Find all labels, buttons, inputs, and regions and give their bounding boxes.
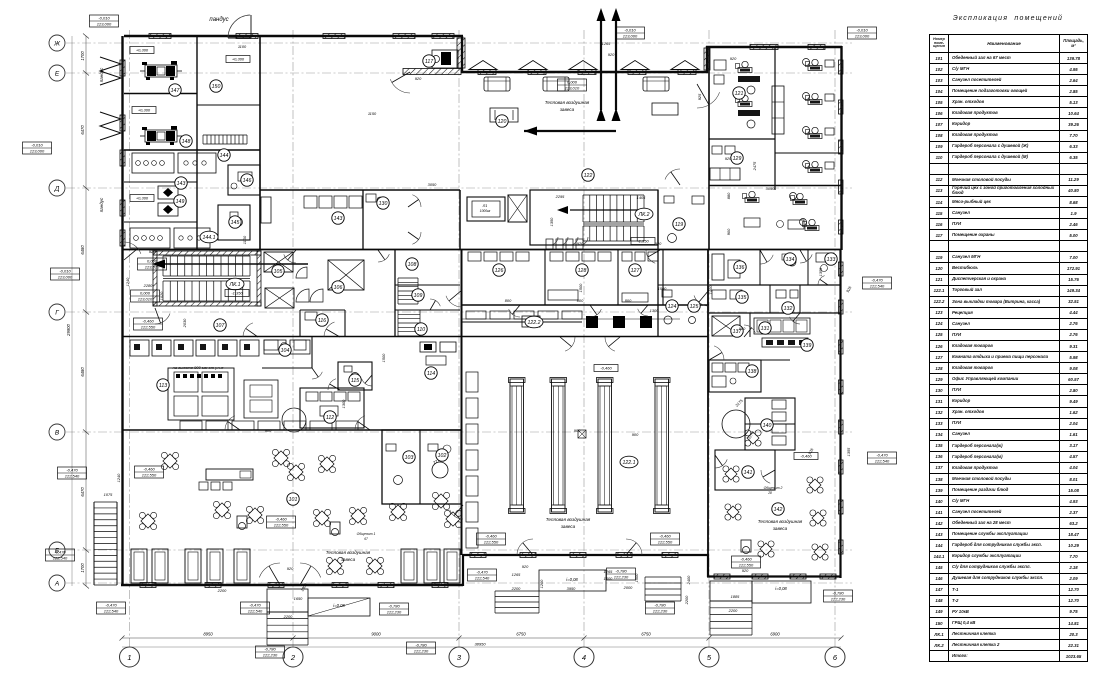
door arc 7 [446, 296, 462, 307]
wall row B y430 [122, 429, 462, 431]
hot line 113 block [168, 368, 234, 420]
left dimension line [85, 36, 87, 586]
svg-text:1240: 1240 [125, 277, 130, 286]
door arc 16 [355, 416, 365, 430]
svg-text:Тепловая воздушная: Тепловая воздушная [326, 550, 371, 555]
transformer 149b [158, 203, 178, 216]
hood 113 [282, 408, 306, 420]
room label 131 [759, 322, 771, 334]
svg-text:920: 920 [287, 566, 294, 571]
turnstiles 120 [546, 239, 553, 249]
door arc 130 a [412, 195, 421, 207]
room label 126 [493, 264, 505, 276]
dining table 12 [437, 503, 468, 534]
window unit 3 [185, 549, 201, 583]
svg-text:122,540: 122,540 [875, 459, 890, 464]
svg-text:101: 101 [289, 497, 298, 503]
dim tick [83, 548, 89, 553]
door arc 28 [590, 309, 601, 317]
axis 2 [292, 30, 294, 648]
svg-text:145: 145 [231, 220, 240, 226]
svg-text:122,550: 122,550 [739, 563, 754, 568]
svg-text:-0,780: -0,780 [832, 591, 844, 596]
stair LK2 treads b [582, 226, 584, 241]
door arc 29 [638, 309, 648, 316]
elevation box -0,470 [468, 569, 497, 581]
door arc 32 [818, 276, 825, 285]
svg-text:138: 138 [748, 369, 757, 375]
wall right upper [840, 46, 842, 250]
table row 122.2 [930, 296, 1088, 307]
entrance canopy [671, 61, 699, 70]
room label 137 [731, 325, 743, 337]
fan coils 106 [296, 289, 309, 302]
storeroom 126 shelves [468, 252, 481, 261]
dim tick [83, 430, 89, 435]
table row 125 [930, 329, 1088, 340]
room label 122.1 [620, 456, 638, 468]
room 133 fixtures [816, 253, 834, 262]
room label 114 [425, 367, 437, 379]
svg-text:1020: 1020 [159, 291, 164, 300]
elevation box -0,460 [732, 556, 761, 568]
svg-text:120: 120 [498, 119, 507, 125]
elevation box -0,460 [594, 365, 618, 372]
svg-text:2200: 2200 [217, 588, 227, 593]
hatch pier bottom [205, 583, 221, 588]
porch steps market 1 [495, 590, 539, 592]
fixture 146 [238, 172, 252, 181]
stair LK2 treads [582, 195, 584, 222]
axis circle 2 [283, 647, 303, 667]
wall y222 (149 south) [124, 221, 197, 223]
door arc 26 [312, 372, 322, 379]
svg-text:завеса: завеса [560, 524, 576, 529]
wall market rooms south y305 [461, 304, 709, 306]
elevation box -0,780 [607, 568, 636, 580]
wall hatch pier [393, 34, 415, 39]
svg-text:129: 129 [733, 156, 742, 162]
axis В [66, 431, 852, 433]
hatch pier 142 bottom [714, 574, 730, 579]
table row 107 [930, 119, 1088, 130]
svg-text:-0,470: -0,470 [871, 278, 883, 283]
cabinet 129 [710, 168, 740, 180]
elevation box -0,470 [58, 467, 87, 479]
svg-text:920: 920 [608, 52, 615, 57]
svg-text:1500: 1500 [604, 576, 613, 581]
elevation box +0,300 [130, 47, 154, 54]
svg-text:920: 920 [725, 156, 732, 161]
svg-text:1: 1 [127, 653, 131, 662]
elevation box -0,460 [135, 466, 164, 478]
market mid mark [578, 430, 586, 438]
svg-text:2295: 2295 [555, 194, 565, 199]
room label 119 [673, 218, 685, 230]
room label 149 [174, 195, 186, 207]
hatch pier market bottom [662, 553, 678, 558]
axis Д [66, 187, 852, 189]
svg-text:147: 147 [171, 88, 181, 94]
svg-text:1265: 1265 [512, 572, 521, 577]
svg-text:6470: 6470 [80, 125, 85, 135]
serving counter row [180, 421, 202, 430]
room label 102 [436, 449, 448, 461]
svg-text:115: 115 [351, 378, 359, 384]
svg-text:800: 800 [625, 298, 632, 303]
dim tick [120, 636, 125, 641]
dining table 9 [342, 500, 373, 531]
elevation box -0,470 [863, 277, 892, 289]
room 134 wc [788, 258, 796, 266]
hatch pier right wall [839, 460, 844, 474]
svg-text:800: 800 [577, 298, 584, 303]
room label 132 [782, 302, 794, 314]
room label 141 [742, 466, 754, 478]
wall bottom 142 [707, 575, 841, 577]
hatch pier right wall [839, 262, 844, 276]
svg-text:144: 144 [220, 153, 229, 159]
svg-text:Общепит 2: Общепит 2 [764, 486, 783, 490]
wall y93 (147/148) [124, 93, 197, 95]
svg-text:2475: 2475 [752, 161, 757, 171]
dim tick [839, 636, 844, 641]
room label 120 [496, 115, 508, 127]
dim tick [582, 636, 587, 641]
elevation box -0,470 [97, 602, 126, 614]
room label 148 [180, 135, 192, 147]
svg-text:150: 150 [212, 84, 221, 90]
wall market checkout y322 [461, 321, 582, 323]
svg-text:122,550: 122,550 [658, 540, 673, 545]
axis Г [66, 311, 852, 313]
svg-text:9000: 9000 [371, 632, 381, 637]
table row 135 [930, 440, 1088, 451]
room 112 walls [300, 388, 364, 428]
door arc 31 [790, 317, 800, 324]
svg-text:122,540: 122,540 [53, 556, 68, 561]
door arc 1 [390, 79, 410, 93]
room 119 fixtures [668, 234, 677, 243]
room label 106 [332, 281, 344, 293]
wall x260 (150/144) [259, 36, 261, 250]
wall step x707 [706, 46, 708, 73]
AHU unit room 148 [145, 130, 177, 142]
svg-text:143: 143 [177, 181, 186, 187]
table row 137 [930, 462, 1088, 473]
room 116 wall left [299, 310, 301, 337]
bench 120b [652, 103, 678, 115]
dining table 142-3 [752, 535, 781, 564]
svg-text:3950: 3950 [567, 586, 576, 591]
hatch pier vestibule [678, 70, 696, 75]
dining table 11 [425, 485, 456, 516]
svg-text:130: 130 [379, 201, 388, 207]
elevation box -0,460 [794, 453, 818, 460]
room label 108 [406, 258, 418, 270]
svg-text:-0,780: -0,780 [615, 569, 627, 574]
svg-text:29900: 29900 [66, 324, 71, 337]
door arc 23 [430, 299, 440, 306]
table row 103 [930, 75, 1088, 86]
dining table 142-6 [806, 538, 835, 567]
wall y139 (121 south) [709, 138, 775, 140]
hatch pier vestibule [478, 70, 496, 75]
wall hatch pier [149, 34, 171, 39]
svg-text:122: 122 [584, 173, 593, 179]
svg-text:пандус: пандус [209, 17, 228, 23]
room label 135 [736, 291, 748, 303]
desks office mid b [793, 200, 807, 205]
svg-text:121: 121 [735, 91, 744, 97]
axis 5 [708, 30, 710, 648]
dining table 3 [206, 494, 237, 525]
svg-text:-0,470: -0,470 [249, 603, 261, 608]
hatch pier bottom [140, 583, 156, 588]
svg-text:-0,460: -0,460 [740, 557, 752, 562]
stair LK2 arrow [570, 209, 640, 211]
wall 140 walls [745, 398, 795, 450]
elevation box +0,300 [226, 56, 250, 63]
table row 145 [930, 562, 1088, 573]
svg-text:105: 105 [274, 269, 283, 275]
svg-text:122,540: 122,540 [870, 284, 885, 289]
svg-text:114: 114 [427, 371, 435, 377]
stair LK1 treads upper [162, 256, 164, 276]
dining table 142-5 [804, 504, 833, 533]
ladder 110 [398, 309, 420, 311]
table row 109 [930, 141, 1088, 152]
hatch pier market bottom [616, 553, 632, 558]
svg-text:920: 920 [730, 56, 737, 61]
svg-text:122,540: 122,540 [65, 474, 80, 479]
ramp axis2 [308, 598, 370, 616]
room label 105 [272, 265, 284, 277]
island 113 [244, 380, 278, 418]
door arc 18 [665, 169, 680, 180]
wall 138 walls [709, 360, 761, 392]
axis circle В [49, 424, 65, 440]
door arc 15 [715, 459, 727, 468]
axis Ж [66, 42, 852, 44]
room 136 shelves [712, 254, 724, 280]
AHU unit room 147 [145, 65, 177, 77]
room label 117 [423, 55, 435, 67]
door arc 12 [800, 254, 812, 263]
porch steps 142 [710, 600, 752, 602]
sofa vestibule [543, 77, 569, 91]
svg-text:122,550: 122,550 [141, 325, 156, 330]
elevation box +0,300 [130, 195, 154, 202]
door arc 21 [284, 254, 296, 263]
hatch pier right wall [839, 500, 844, 514]
wheelchair a [237, 516, 247, 528]
hatch pier 142 bottom [790, 574, 806, 579]
svg-text:119: 119 [675, 222, 683, 228]
room label 130 [377, 197, 389, 209]
svg-text:2000: 2000 [623, 585, 633, 590]
table row 127 [930, 352, 1088, 363]
hatch pier right wall [839, 380, 844, 394]
svg-text:ЛК.1: ЛК.1 [229, 282, 241, 288]
table row 116 [930, 219, 1088, 230]
wheelchair 142 [741, 540, 751, 552]
svg-text:143: 143 [334, 216, 343, 222]
svg-text:122,230: 122,230 [653, 609, 668, 614]
svg-text:на высоте 900 мм от у.ч.п: на высоте 900 мм от у.ч.п [173, 365, 225, 370]
door arc 10 [694, 296, 709, 307]
room label 104 [279, 344, 291, 356]
door arc 11 [760, 255, 773, 264]
door arc 25 [362, 379, 372, 386]
hatch pier 142 bottom [820, 574, 836, 579]
stair shaft 105 xbox b [265, 288, 294, 308]
svg-text:122.1: 122.1 [623, 460, 636, 466]
table row 141 [930, 507, 1088, 518]
window unit 4 [207, 549, 223, 583]
svg-text:1350: 1350 [549, 217, 554, 226]
svg-text:1500: 1500 [634, 573, 639, 582]
hatch pier right wall [839, 180, 844, 194]
transformer 149a [158, 186, 178, 199]
svg-text:1100: 1100 [238, 44, 247, 49]
svg-text:900: 900 [632, 432, 639, 437]
svg-text:Г: Г [55, 309, 59, 316]
svg-text:-0,010: -0,010 [59, 269, 71, 274]
hatch corner 117 [457, 38, 465, 68]
axis circle 6 [825, 647, 845, 667]
room 115 walls [338, 362, 372, 390]
hatch pier market bottom [520, 553, 536, 558]
dining table 142-4 [801, 471, 830, 500]
svg-text:136: 136 [736, 265, 745, 271]
svg-text:142: 142 [774, 507, 783, 513]
table row 148 [930, 595, 1088, 606]
room 145 walls [218, 205, 250, 240]
elevation box -0,010 [51, 268, 80, 280]
wall x808 (134/133) [807, 250, 809, 285]
axis circle Б [49, 542, 65, 558]
ext stair rail [93, 502, 95, 585]
window unit 5 [234, 549, 250, 583]
table row 123 [930, 307, 1088, 318]
svg-text:Тепловая воздушная: Тепловая воздушная [546, 517, 591, 522]
table row 144.1 [930, 551, 1088, 562]
table row 142 [930, 518, 1088, 529]
room 102 wc [432, 462, 448, 478]
room 137 shelf [712, 316, 740, 336]
svg-text:920: 920 [522, 564, 529, 569]
wall y153 mid [775, 152, 842, 154]
table row 146 [930, 573, 1088, 584]
section arrow b mid [612, 108, 621, 121]
table row 120 [930, 263, 1088, 274]
svg-text:122.2: 122.2 [528, 320, 541, 326]
table row 149 [930, 606, 1088, 617]
market door a [517, 539, 533, 555]
room label 112 [324, 411, 336, 423]
window unit 6 [401, 549, 417, 583]
room 143 counters [304, 196, 317, 208]
axis circle 1 [120, 647, 140, 667]
table row 147 [930, 584, 1088, 595]
svg-text:800: 800 [505, 298, 512, 303]
door arc 14 [761, 470, 770, 483]
svg-text:1650: 1650 [294, 596, 303, 601]
desks office mid a [745, 198, 759, 203]
svg-text:-0,470: -0,470 [876, 453, 888, 458]
porch steps market 2 [645, 576, 681, 578]
table row 124 [930, 318, 1088, 329]
fixture 145 wc [234, 218, 243, 227]
svg-text:128: 128 [578, 268, 587, 274]
elevation box 0,000 [138, 258, 167, 270]
svg-text:-0,780: -0,780 [388, 604, 400, 609]
svg-text:109: 109 [414, 293, 423, 299]
svg-text:925: 925 [697, 93, 702, 100]
table row 138 [930, 473, 1088, 484]
room 116 wall right [344, 310, 346, 337]
wall x760 (136/134) [759, 250, 761, 285]
elevation box -0,470 [868, 452, 897, 464]
room label 133 [825, 253, 837, 265]
room label 127 [629, 264, 641, 276]
dining table 8 [306, 502, 337, 533]
section line a [600, 18, 602, 110]
room 131 kitchen [754, 318, 810, 334]
dining table 14 [359, 550, 390, 581]
ramp market [539, 570, 606, 591]
svg-text:122,230: 122,230 [614, 575, 629, 580]
door arc 30 [744, 325, 755, 333]
svg-text:2200: 2200 [511, 586, 521, 591]
table row 143 [930, 529, 1088, 540]
axis circle А [49, 575, 65, 591]
wall y504 (102 south) [382, 503, 461, 505]
table row 139 [930, 485, 1088, 496]
room label 140 [761, 419, 773, 431]
buffet line 101 [206, 469, 253, 480]
svg-text:завеса: завеса [559, 107, 575, 112]
door arc 17 [225, 416, 235, 430]
hatch pier right wall [839, 540, 844, 554]
electrical panels 149 row2 [130, 228, 170, 248]
svg-text:920: 920 [655, 241, 662, 246]
room label 143 [332, 212, 344, 224]
dining table 142-7 [739, 424, 768, 453]
svg-text:Ж: Ж [53, 40, 61, 47]
table row ЛК.1 [930, 629, 1088, 640]
svg-text:107: 107 [216, 323, 226, 329]
elevation box -0,010 [90, 15, 119, 27]
axis А [66, 582, 852, 584]
hatch pier bottom [332, 583, 348, 588]
table row 129 [930, 374, 1088, 385]
door arc 22 [378, 254, 389, 262]
hatch pier right wall [839, 60, 844, 74]
svg-text:-0,460: -0,460 [143, 467, 155, 472]
wall x775 offices [774, 47, 776, 190]
svg-text:106: 106 [334, 285, 343, 291]
svg-text:117: 117 [425, 59, 434, 65]
svg-text:6900: 6900 [770, 632, 780, 637]
svg-text:125: 125 [690, 304, 699, 310]
svg-text:1405: 1405 [637, 195, 646, 200]
door arc 27 [509, 309, 520, 317]
window unit 1 [131, 549, 147, 583]
axis 6 [834, 30, 836, 648]
dim tick [83, 34, 89, 39]
